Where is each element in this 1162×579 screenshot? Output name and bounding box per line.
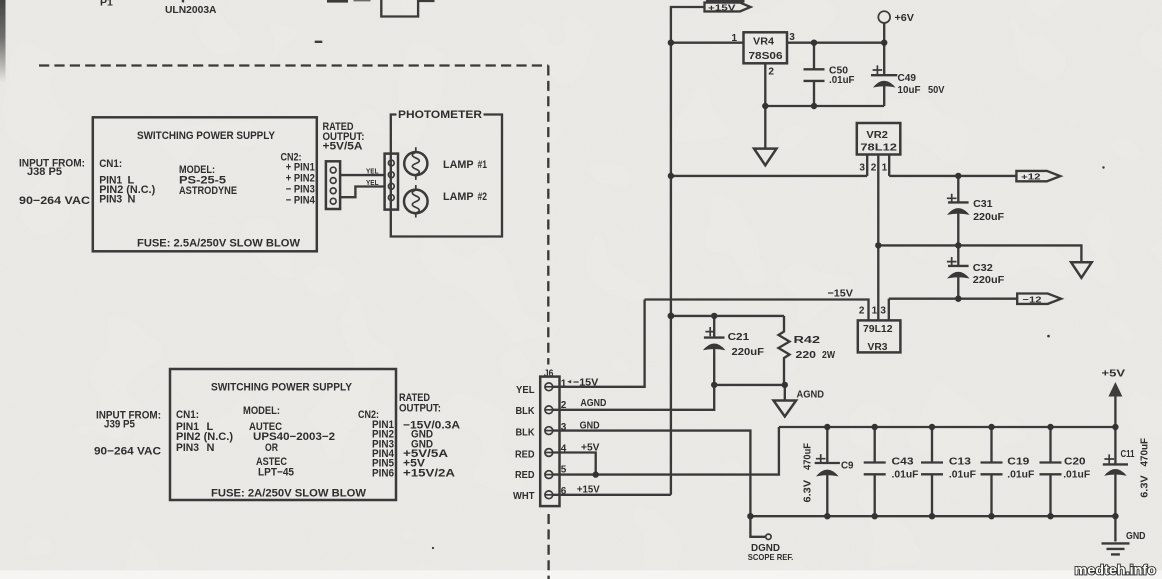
svg-text:ASTRODYNE: ASTRODYNE bbox=[179, 185, 237, 197]
svg-text:78S06: 78S06 bbox=[749, 50, 783, 62]
svg-text:#2: #2 bbox=[478, 191, 488, 203]
svg-text:2W: 2W bbox=[822, 349, 835, 361]
svg-text:220uF: 220uF bbox=[973, 211, 1005, 223]
svg-text:220uF: 220uF bbox=[732, 346, 765, 358]
svg-text:.01uF: .01uF bbox=[1007, 468, 1035, 480]
svg-text:CN1:: CN1: bbox=[176, 409, 199, 421]
svg-text:VR3: VR3 bbox=[868, 341, 888, 353]
svg-text:1: 1 bbox=[732, 33, 738, 44]
svg-text:N: N bbox=[207, 442, 215, 454]
svg-text:50V: 50V bbox=[928, 84, 945, 96]
svg-text:6.3V: 6.3V bbox=[802, 480, 814, 503]
svg-text:ULN2003A: ULN2003A bbox=[165, 4, 217, 16]
svg-text:N: N bbox=[128, 194, 136, 206]
svg-text:PIN3: PIN3 bbox=[176, 442, 199, 454]
svg-text:3: 3 bbox=[859, 162, 865, 173]
svg-text:.01uF: .01uF bbox=[829, 74, 855, 86]
svg-text:FUSE: 2.5A/250V SLOW BLOW: FUSE: 2.5A/250V SLOW BLOW bbox=[137, 237, 301, 249]
svg-text:YEL: YEL bbox=[366, 178, 379, 187]
svg-text:2: 2 bbox=[768, 67, 774, 78]
svg-text:VR2: VR2 bbox=[866, 129, 888, 141]
svg-text:J38 P5: J38 P5 bbox=[27, 166, 62, 178]
svg-text:220: 220 bbox=[796, 349, 817, 361]
svg-text:AGND: AGND bbox=[580, 397, 606, 409]
svg-text:AGND: AGND bbox=[797, 388, 825, 400]
svg-text:J39 P5: J39 P5 bbox=[104, 419, 135, 431]
svg-text:.01uF: .01uF bbox=[1063, 468, 1091, 480]
svg-text:.01uF: .01uF bbox=[949, 468, 977, 480]
svg-text:79L12: 79L12 bbox=[863, 323, 893, 335]
svg-text:90−264 VAC: 90−264 VAC bbox=[19, 195, 90, 207]
svg-text:VR4: VR4 bbox=[753, 36, 774, 48]
svg-text:PIN6: PIN6 bbox=[372, 468, 394, 480]
svg-text:OR: OR bbox=[265, 442, 278, 454]
svg-text:1: 1 bbox=[882, 162, 888, 173]
svg-text:90−264 VAC: 90−264 VAC bbox=[94, 446, 161, 458]
svg-text:SWITCHING POWER SUPPLY: SWITCHING POWER SUPPLY bbox=[137, 130, 276, 142]
svg-text:C20: C20 bbox=[1064, 456, 1086, 468]
svg-text:RED: RED bbox=[515, 449, 535, 461]
svg-text:CN1:: CN1: bbox=[99, 158, 122, 170]
svg-text:+12: +12 bbox=[1021, 172, 1041, 182]
svg-text:YEL: YEL bbox=[366, 166, 379, 175]
svg-text:SCOPE REF.: SCOPE REF. bbox=[748, 552, 794, 562]
svg-text:1: 1 bbox=[872, 306, 878, 317]
svg-text:C49: C49 bbox=[898, 72, 917, 84]
svg-text:P1: P1 bbox=[100, 0, 113, 9]
svg-text:470uF: 470uF bbox=[1139, 437, 1151, 466]
svg-text:2: 2 bbox=[859, 306, 865, 317]
svg-text:BLK: BLK bbox=[516, 405, 535, 417]
svg-text:+15V/2A: +15V/2A bbox=[403, 468, 455, 480]
svg-text:SWITCHING POWER SUPPLY: SWITCHING POWER SUPPLY bbox=[211, 382, 353, 394]
svg-text:RED: RED bbox=[515, 469, 535, 481]
svg-text:−12: −12 bbox=[1023, 294, 1042, 304]
svg-text:2: 2 bbox=[871, 162, 877, 173]
svg-text:C32: C32 bbox=[973, 262, 993, 274]
svg-text:3: 3 bbox=[789, 32, 795, 43]
svg-text:OUTPUT:: OUTPUT: bbox=[399, 402, 441, 414]
svg-text:LPT−45: LPT−45 bbox=[258, 467, 294, 479]
svg-text:MODEL:: MODEL: bbox=[243, 405, 280, 417]
svg-text:10uF: 10uF bbox=[898, 84, 922, 96]
svg-text:BLK: BLK bbox=[516, 427, 535, 439]
svg-text:C9: C9 bbox=[841, 460, 854, 472]
svg-text:WHT: WHT bbox=[513, 490, 535, 502]
svg-text:3: 3 bbox=[880, 306, 886, 317]
svg-text:C19: C19 bbox=[1007, 456, 1029, 468]
svg-text:78L12: 78L12 bbox=[860, 141, 897, 153]
svg-text:PHOTOMETER: PHOTOMETER bbox=[398, 109, 482, 121]
svg-text:GND: GND bbox=[1126, 530, 1146, 542]
svg-text:C43: C43 bbox=[892, 456, 914, 468]
svg-text:C11: C11 bbox=[1121, 448, 1135, 460]
svg-text:FUSE: 2A/250V SLOW BLOW: FUSE: 2A/250V SLOW BLOW bbox=[211, 488, 367, 500]
svg-text:470uF: 470uF bbox=[802, 442, 814, 470]
svg-text:PIN3: PIN3 bbox=[99, 194, 122, 206]
svg-text:#1: #1 bbox=[478, 159, 488, 171]
svg-text:C13: C13 bbox=[949, 456, 971, 468]
svg-text:−15V: −15V bbox=[828, 287, 854, 299]
svg-text:LAMP: LAMP bbox=[443, 191, 474, 203]
svg-text:6.3V: 6.3V bbox=[1139, 475, 1151, 498]
svg-text:.01uF: .01uF bbox=[892, 468, 920, 480]
svg-text:− PIN4: − PIN4 bbox=[286, 194, 316, 206]
svg-text:+15V: +15V bbox=[708, 2, 736, 12]
svg-text:+6V: +6V bbox=[895, 12, 915, 24]
svg-text:220uF: 220uF bbox=[973, 274, 1005, 286]
svg-text:C21: C21 bbox=[728, 331, 750, 343]
svg-text:+5V: +5V bbox=[1102, 368, 1126, 380]
svg-text:+5V/5A: +5V/5A bbox=[323, 140, 363, 152]
svg-text:LAMP: LAMP bbox=[443, 159, 474, 171]
svg-text:C31: C31 bbox=[973, 198, 993, 210]
svg-text:R42: R42 bbox=[794, 334, 821, 346]
svg-text:YEL: YEL bbox=[516, 384, 535, 396]
svg-text:medteh.info: medteh.info bbox=[1075, 562, 1157, 578]
